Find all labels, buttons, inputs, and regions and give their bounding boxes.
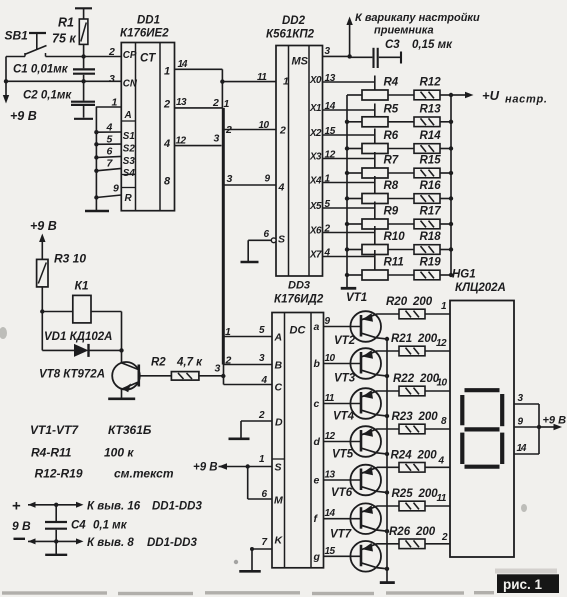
wire ladder mid lead: [388, 249, 414, 251]
svg-text:R9: R9: [384, 206, 399, 218]
wire DD2 output X2: [323, 134, 375, 136]
svg-text:приемника: приемника: [374, 25, 434, 37]
transistor VT6 KT361B: [324, 487, 388, 534]
svg-text:2: 2: [108, 46, 115, 58]
wire ladder mid lead: [388, 172, 414, 174]
svg-text:К176ИД2: К176ИД2: [274, 294, 324, 306]
wire CP net: [46, 56, 122, 58]
svg-text:R8: R8: [384, 180, 399, 192]
node minus rail junction: [54, 539, 58, 543]
svg-text:VT1: VT1: [346, 292, 367, 304]
svg-text:14: 14: [325, 101, 336, 112]
svg-text:g: g: [313, 551, 321, 563]
seven segment f: [460, 395, 464, 425]
svg-text:К176ИЕ2: К176ИЕ2: [120, 28, 169, 40]
svg-text:12: 12: [436, 338, 447, 349]
transistor VT1 KT361B: [324, 292, 388, 342]
wire emitter to R23: [377, 428, 399, 430]
node junction R1/SB1/CP: [81, 54, 85, 58]
svg-text:b: b: [314, 358, 321, 370]
wire emitter to R20: [377, 313, 399, 315]
svg-text:e: e: [314, 475, 320, 487]
svg-text:15: 15: [325, 126, 336, 137]
svg-text:DC: DC: [290, 325, 307, 337]
wire emitter to R25: [377, 505, 399, 507]
wire DD2 output X4: [323, 182, 375, 184]
node +U bus junction: [449, 196, 453, 200]
wire HG1 common bracket: [538, 404, 540, 454]
node K1/VD1 junction: [40, 309, 44, 313]
svg-text:R1: R1: [58, 16, 74, 30]
wire net2 to DD2 pin 10: [224, 129, 276, 131]
svg-text:S4: S4: [123, 168, 136, 179]
svg-text:VT2: VT2: [334, 335, 356, 347]
svg-text:200: 200: [417, 449, 438, 461]
svg-text:КЛЦ202А: КЛЦ202А: [455, 282, 506, 294]
resistor R1: [52, 8, 92, 56]
svg-text:3: 3: [325, 46, 331, 57]
decoder DD3 K176ID2: [272, 280, 324, 568]
wire ladder mid lead: [388, 121, 414, 123]
svg-text:4: 4: [261, 375, 268, 386]
svg-text:200: 200: [418, 488, 439, 500]
svg-text:2: 2: [163, 99, 170, 111]
node collector bus junction VT7: [385, 567, 389, 571]
svg-text:+9 В: +9 В: [30, 219, 57, 233]
svg-text:R24: R24: [391, 449, 413, 461]
resistor R20 200: [386, 296, 433, 319]
node +U bus junction: [449, 222, 453, 226]
resistor R8: [362, 180, 399, 204]
ground DD3 input D: [229, 421, 273, 439]
seven segment e: [460, 433, 464, 464]
svg-text:CT: CT: [140, 53, 156, 65]
resistor R13: [414, 103, 441, 126]
ground DD2 strobe S: [241, 238, 277, 262]
svg-text:10: 10: [259, 120, 270, 131]
svg-text:R23: R23: [392, 411, 414, 423]
seven segment d: [465, 465, 500, 469]
svg-text:R17: R17: [420, 206, 442, 218]
node collector bus junction VT3: [385, 414, 389, 418]
seven segment c: [500, 433, 504, 464]
resistor R25 200: [392, 488, 439, 511]
svg-text:настр.: настр.: [505, 94, 548, 106]
svg-text:1: 1: [283, 76, 289, 88]
wire to +U bus: [440, 94, 451, 96]
svg-text:2: 2: [212, 97, 219, 109]
svg-text:10: 10: [437, 378, 448, 389]
node +U bus junction: [449, 93, 453, 97]
svg-text:DD3: DD3: [288, 280, 310, 292]
node R junction: [94, 195, 98, 199]
svg-text:S1: S1: [123, 131, 135, 142]
wire HG1 pin 3: [514, 403, 539, 405]
svg-text:3: 3: [227, 173, 233, 185]
wire DD2 output X3: [323, 158, 375, 160]
node +U bus junction: [449, 120, 453, 124]
svg-text:R13: R13: [420, 103, 442, 115]
svg-text:12: 12: [325, 150, 336, 161]
wire ladder left lead: [347, 94, 362, 96]
svg-text:2: 2: [324, 224, 331, 235]
svg-text:+U: +U: [482, 88, 500, 103]
resistor R16: [414, 180, 441, 203]
wire +U nastr output arrow: [451, 88, 548, 106]
svg-text:13: 13: [176, 97, 187, 108]
svg-text:0,1 мк: 0,1 мк: [93, 520, 128, 532]
wire ladder left lead: [347, 274, 362, 276]
multiplexer DD2 K561KP2: [266, 15, 323, 276]
svg-text:9 В: 9 В: [12, 519, 31, 533]
svg-text:DD1: DD1: [137, 15, 160, 27]
wire ladder left lead: [347, 249, 362, 251]
svg-text:CN: CN: [123, 79, 138, 90]
svg-text:С3: С3: [385, 39, 400, 51]
wire DD2 output X1: [323, 109, 375, 111]
svg-text:R21: R21: [391, 333, 412, 345]
wire DD2 output X6: [323, 232, 375, 234]
resistor R24 200: [391, 449, 438, 472]
svg-text:7: 7: [262, 537, 268, 548]
svg-text:С1 0,01мк: С1 0,01мк: [13, 64, 69, 76]
resistor R21 200: [391, 333, 438, 356]
node VD1/collector junction: [119, 348, 123, 352]
wire to +U bus: [440, 148, 451, 150]
svg-text:R15: R15: [420, 155, 442, 167]
wire DD1 input A: [96, 107, 121, 198]
resistor R15: [414, 155, 441, 178]
transistor VT4 KT361B: [324, 411, 388, 457]
wire ladder left lead: [347, 198, 362, 200]
svg-text:R12: R12: [420, 77, 442, 89]
svg-text:R22: R22: [393, 373, 415, 385]
wire to DD3 input A: [224, 336, 273, 338]
svg-text:4: 4: [278, 182, 285, 194]
svg-text:100 к: 100 к: [104, 446, 134, 460]
wire S4: [96, 168, 121, 170]
power rail minus: [14, 538, 26, 540]
wire C4 bottom stub: [55, 541, 57, 554]
svg-text:d: d: [314, 436, 321, 448]
svg-text:SB1: SB1: [5, 29, 29, 43]
svg-text:2: 2: [441, 532, 448, 543]
svg-text:R: R: [125, 193, 133, 204]
wire X6 drop to ladder: [374, 226, 376, 245]
svg-text:6: 6: [107, 146, 113, 158]
svg-text:A: A: [124, 110, 132, 121]
svg-text:200: 200: [415, 526, 436, 538]
svg-text:R7: R7: [384, 155, 399, 167]
ground DD3 input K: [239, 549, 272, 571]
svg-text:12: 12: [325, 431, 336, 442]
svg-text:R19: R19: [420, 257, 442, 269]
wire net1 vertical: [221, 69, 223, 108]
svg-text:a: a: [314, 321, 320, 333]
svg-text:2: 2: [258, 410, 265, 421]
node collector bus junction VT4: [385, 452, 389, 456]
svg-text:X1: X1: [309, 103, 321, 114]
svg-text:R20: R20: [386, 296, 408, 308]
resistor R23 200: [392, 411, 439, 434]
wire to varicap (up arrow): [346, 12, 480, 56]
wire to DD3 input B: [224, 364, 273, 366]
capacitor C4: [45, 505, 128, 542]
resistor R2 4.7k: [140, 357, 203, 381]
svg-text:12: 12: [176, 136, 187, 147]
transistor VT2 KT361B: [324, 335, 388, 379]
seven segment g: [465, 427, 500, 431]
svg-text:VT3: VT3: [334, 373, 356, 385]
svg-text:R25: R25: [392, 488, 414, 500]
svg-text:VD1 КД102А: VD1 КД102А: [44, 331, 112, 343]
svg-text:X2: X2: [309, 128, 322, 139]
node junction CN/C1/C2: [81, 79, 85, 83]
wire DD2 pin 3 output: [323, 55, 350, 57]
node ground bus junction: [345, 247, 349, 251]
svg-text:КТ361Б: КТ361Б: [108, 423, 152, 437]
svg-text:X3: X3: [309, 152, 322, 163]
svg-text:0,15 мк: 0,15 мк: [412, 39, 453, 51]
svg-text:R14: R14: [420, 130, 442, 142]
svg-text:CP: CP: [123, 50, 137, 61]
wire ladder left lead: [347, 121, 362, 123]
wire DD1 out 4 (net 3): [175, 145, 222, 147]
wire net3 tail to DD3 C: [223, 365, 225, 385]
svg-text:VT7: VT7: [330, 529, 352, 541]
resistor R6: [362, 130, 399, 154]
svg-text:11: 11: [257, 72, 267, 83]
power +9V to DD3 S,M: [193, 462, 272, 500]
node S3 junction: [94, 155, 98, 159]
svg-text:С2 0,1мк: С2 0,1мк: [23, 90, 72, 102]
resistor R4: [362, 77, 399, 101]
svg-text:75 к: 75 к: [52, 32, 76, 46]
resistor R9: [362, 206, 399, 230]
svg-text:R11: R11: [384, 257, 404, 269]
wire to HG1 segment: [425, 428, 450, 430]
svg-text:R12-R19: R12-R19: [35, 467, 83, 481]
svg-text:X4: X4: [309, 176, 322, 187]
svg-text:2: 2: [225, 124, 232, 136]
node R2/net3 junction: [221, 374, 225, 378]
wire K1 right to collector: [121, 312, 123, 351]
wire to HG1 segment: [425, 313, 450, 315]
wire HG1 pin 14: [514, 453, 539, 455]
svg-text:X0: X0: [309, 75, 322, 86]
svg-text:1: 1: [224, 98, 230, 110]
svg-text:2: 2: [225, 355, 232, 367]
wire R: [96, 195, 121, 198]
svg-text:10: 10: [325, 353, 336, 364]
wire emitter to R22: [377, 390, 399, 392]
svg-text:+9 В: +9 В: [193, 462, 218, 474]
wire collector common bus: [386, 339, 388, 582]
svg-text:S: S: [278, 233, 285, 245]
ground ladder: [341, 287, 357, 290]
svg-text:VT5: VT5: [332, 449, 354, 461]
svg-text:11: 11: [325, 393, 335, 404]
transistor VT7 KT361B: [324, 529, 388, 572]
svg-text:S2: S2: [123, 144, 136, 155]
ground VT8 emitter: [108, 397, 135, 400]
wire to +U bus: [440, 121, 451, 123]
capacitor C3: [350, 39, 453, 68]
ground DD1 inputs: [85, 198, 109, 212]
node plus rail junction: [54, 503, 58, 507]
svg-text:4: 4: [163, 138, 170, 150]
relay K1: [42, 279, 121, 323]
svg-text:К варикапу настройки: К варикапу настройки: [355, 12, 480, 24]
transistor VT8 KT972A: [39, 350, 140, 397]
ground C4 bottom bar: [45, 554, 67, 556]
svg-text:15: 15: [325, 546, 336, 557]
wire ladder mid lead: [388, 223, 414, 225]
svg-text:C: C: [275, 382, 283, 394]
svg-text:К выв. 16: К выв. 16: [87, 501, 141, 513]
scan artifacts (unlabeled decorative): [0, 327, 527, 595]
wire +U right bus: [450, 95, 452, 275]
transistor VT3 KT361B: [324, 373, 388, 419]
node net1/DD2 junction: [220, 79, 224, 83]
wire R2 to net3: [199, 375, 223, 377]
node +U bus junction: [449, 171, 453, 175]
svg-text:8: 8: [164, 176, 171, 188]
svg-text:5: 5: [107, 134, 113, 146]
power +9V to R3: [30, 219, 57, 259]
ground transistor bus: [380, 581, 395, 584]
svg-text:4: 4: [106, 122, 113, 134]
svg-text:B: B: [275, 360, 283, 372]
wire ladder mid lead: [388, 274, 414, 276]
svg-text:+: +: [12, 498, 21, 515]
wire X5 drop to ladder: [374, 202, 376, 220]
wire to +U bus: [440, 249, 451, 251]
wire S3: [96, 156, 121, 157]
wire to HG1 segment: [425, 350, 450, 352]
svg-text:200: 200: [417, 333, 438, 345]
resistor R5: [362, 103, 399, 127]
svg-text:R10: R10: [384, 231, 406, 243]
wire net1 to DD2 pin 11: [222, 81, 276, 83]
node ground bus junction: [345, 222, 349, 226]
seven segment a: [465, 388, 500, 392]
wire S1: [96, 131, 121, 133]
svg-text:3: 3: [214, 133, 220, 145]
svg-text:С4: С4: [71, 520, 86, 532]
wire DD1 out 2 (net 2): [175, 107, 223, 109]
wire HG1 pin 9: [514, 426, 539, 428]
svg-text:DD1-DD3: DD1-DD3: [152, 501, 202, 513]
svg-text:R4: R4: [384, 77, 399, 89]
svg-text:A: A: [274, 332, 283, 344]
svg-text:VT8 КТ972А: VT8 КТ972А: [39, 369, 105, 381]
svg-text:3: 3: [259, 353, 265, 364]
svg-text:VT6: VT6: [331, 487, 353, 499]
node junction left rail CN: [4, 79, 8, 83]
wire X3 drop to ladder: [374, 152, 376, 168]
node S/M junction: [246, 464, 250, 468]
wire DD2 output X5: [323, 207, 375, 209]
svg-text:MS: MS: [292, 56, 309, 68]
svg-text:M: M: [274, 495, 283, 507]
wire to HG1 segment: [425, 505, 450, 507]
svg-text:X6: X6: [309, 226, 322, 237]
resistor R26 200: [389, 526, 436, 549]
svg-text:5: 5: [325, 199, 331, 210]
svg-text:6: 6: [264, 229, 270, 240]
wire to HG1 segment: [425, 466, 450, 468]
wire ladder mid lead: [388, 148, 414, 150]
wire to +U bus: [440, 198, 451, 200]
power +9V left rail: [3, 57, 37, 124]
svg-text:1: 1: [225, 326, 231, 338]
wire to DD3 input C: [224, 384, 273, 386]
resistor R19: [414, 257, 441, 280]
node +U bus junction: [449, 247, 453, 251]
svg-text:R4-R11: R4-R11: [31, 446, 72, 460]
capacitor C1: [13, 57, 95, 82]
svg-text:R3 10: R3 10: [54, 252, 86, 266]
transistor VT5 KT361B: [324, 449, 388, 496]
switch SB1: [5, 29, 47, 57]
svg-text:13: 13: [325, 470, 336, 481]
wire X0 drop to ladder: [374, 76, 376, 91]
svg-text:+9 В: +9 В: [543, 415, 567, 427]
svg-text:9: 9: [265, 174, 271, 185]
resistor R12: [414, 77, 441, 100]
figure label ris.1: [495, 569, 559, 594]
wire DD2 output X7: [323, 256, 375, 258]
svg-text:R26: R26: [389, 526, 411, 538]
svg-text:см.текст: см.текст: [114, 467, 174, 481]
svg-text:R6: R6: [384, 130, 399, 142]
svg-text:R18: R18: [420, 231, 442, 243]
counter DD1 K176IE2: [120, 15, 175, 211]
svg-text:R2: R2: [151, 357, 166, 369]
svg-text:1: 1: [112, 97, 118, 109]
svg-text:DD1-DD3: DD1-DD3: [147, 537, 197, 549]
capacitor C2: [23, 81, 95, 119]
wire ladder left lead: [347, 172, 362, 174]
wire bus nets 1-3 vertical: [222, 108, 225, 365]
svg-text:2: 2: [279, 125, 286, 137]
svg-text:X5: X5: [309, 201, 322, 212]
svg-text:3: 3: [518, 393, 524, 404]
wire X4 drop to ladder: [374, 176, 376, 194]
node ground bus junction: [345, 196, 349, 200]
svg-text:3: 3: [215, 363, 221, 375]
wire emitter to R24: [377, 466, 399, 468]
wire ladder left lead: [347, 148, 362, 150]
node S2 junction: [94, 142, 98, 146]
svg-text:DD2: DD2: [282, 15, 306, 27]
node collector bus junction VT1: [385, 337, 389, 341]
wire to HG1 segment: [425, 543, 450, 545]
resistor R17: [414, 206, 441, 229]
wire ladder ground bus: [346, 95, 348, 288]
wire CN net: [6, 80, 121, 82]
node varicap junction: [347, 54, 351, 58]
resistor R18: [414, 231, 441, 254]
svg-text:X7: X7: [309, 250, 322, 261]
svg-text:К561КП2: К561КП2: [266, 29, 315, 41]
svg-text:4: 4: [438, 456, 445, 467]
node ground bus junction: [345, 171, 349, 175]
wire X1 drop to ladder: [374, 104, 376, 117]
svg-text:c: c: [314, 398, 320, 410]
display HG1 KLC202A: [450, 269, 514, 558]
